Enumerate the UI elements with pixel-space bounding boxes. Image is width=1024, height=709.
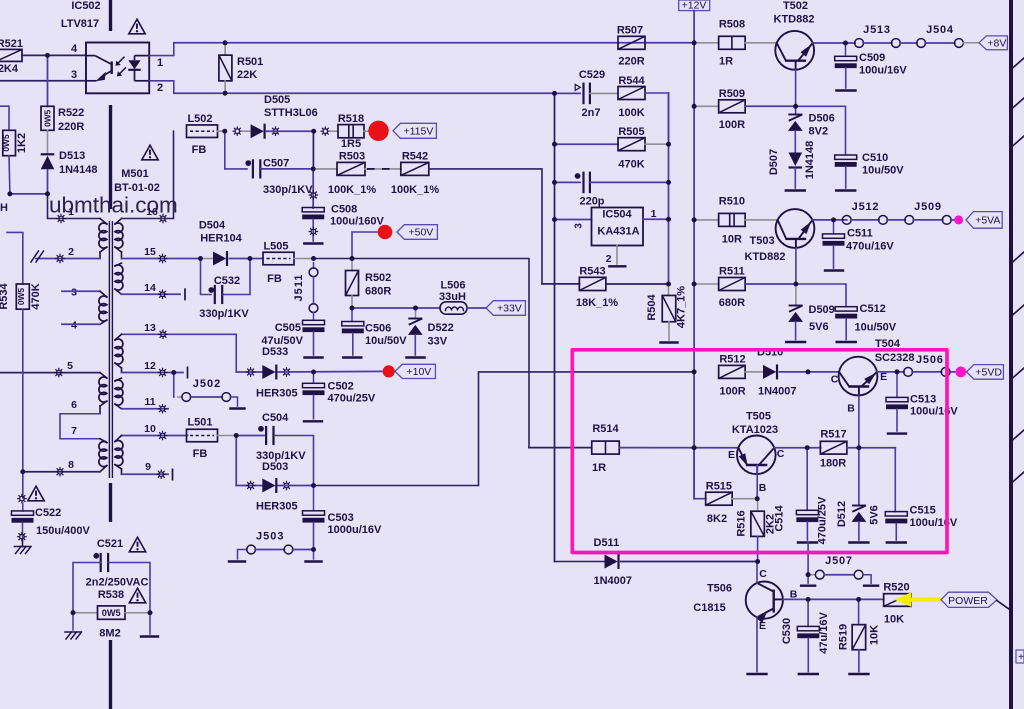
opto LED (135, 55, 150, 57)
wire D503 out to riser (278, 485, 313, 487)
svg-text:10u/50V: 10u/50V (855, 322, 897, 334)
wire D513 to node (47, 170, 49, 194)
right error column (668, 93, 670, 284)
svg-text:C: C (777, 448, 785, 460)
diode D505 (242, 130, 251, 132)
svg-text:T502: T502 (783, 0, 808, 12)
capacitor C502 (313, 372, 315, 383)
wire riser to D533 (236, 371, 262, 373)
wire R522 to D513 (47, 130, 49, 154)
T502 base down (795, 70, 797, 107)
svg-text:R515: R515 (706, 481, 732, 493)
+12V rail (693, 11, 695, 499)
shunt regulator IC504 KA431A (555, 219, 592, 221)
wire error column to D511 (555, 561, 605, 563)
svg-text:T503: T503 (750, 235, 775, 247)
svg-text:POWER: POWER (948, 595, 988, 607)
svg-text:1N4148: 1N4148 (804, 141, 816, 180)
svg-text:HER305: HER305 (256, 501, 298, 513)
svg-text:FB: FB (267, 273, 282, 285)
test point mark (233, 126, 243, 136)
svg-text:R520: R520 (883, 582, 909, 594)
wire pin10 to L501 (122, 435, 188, 437)
snubber C532 loop (201, 259, 212, 295)
resistor R510 (694, 219, 718, 221)
svg-text:KTD882: KTD882 (774, 14, 815, 26)
svg-text:1R: 1R (719, 56, 733, 68)
svg-text:J509: J509 (914, 201, 942, 213)
svg-text:2: 2 (606, 253, 612, 265)
test mark pin13 riser (246, 367, 256, 377)
svg-text:1R: 1R (592, 462, 606, 474)
svg-text:2n2/250VAC: 2n2/250VAC (86, 577, 149, 589)
diode D504 (201, 258, 214, 260)
svg-text:D507: D507 (768, 149, 780, 175)
svg-text:B: B (847, 403, 855, 415)
wire R544 to right column (645, 93, 669, 144)
svg-text:0W5: 0W5 (16, 288, 26, 306)
svg-text:IC504: IC504 (602, 209, 632, 221)
chassis ground under C522 (22, 541, 24, 547)
svg-text:1N4148: 1N4148 (59, 164, 98, 176)
diode D533 (262, 365, 275, 379)
svg-text:C: C (831, 374, 839, 386)
svg-text:C513: C513 (910, 394, 936, 406)
test mark below C522 (22, 523, 24, 541)
wire D533 to +10V flag (278, 370, 382, 373)
svg-text:R507: R507 (617, 25, 643, 37)
diode D503 (262, 479, 275, 493)
jumper J502 (173, 373, 175, 398)
flag +50V (397, 225, 437, 240)
svg-text:L502: L502 (187, 113, 212, 125)
svg-text:100K_1%: 100K_1% (328, 184, 377, 196)
svg-text:330p/1KV: 330p/1KV (199, 308, 249, 320)
T504 emitter to +5VD (877, 371, 904, 373)
junction dots layer (45, 53, 50, 58)
bus diagonal stubs (1012, 58, 1024, 69)
ground under D522 (407, 356, 425, 358)
svg-text:14: 14 (144, 282, 156, 294)
svg-text:10: 10 (144, 423, 156, 435)
svg-text:4K7_1%: 4K7_1% (676, 286, 688, 328)
capacitor C504 (236, 435, 264, 437)
svg-text:J511: J511 (293, 274, 305, 302)
wire lower rail to error amp (174, 92, 555, 94)
svg-text:18K_1%: 18K_1% (576, 297, 618, 309)
flag +8V (979, 36, 1007, 50)
ground under C509 (837, 89, 856, 91)
wire riser to D503 (236, 485, 262, 487)
zener D506 (795, 106, 797, 114)
wire T505 collector to R517 (774, 447, 821, 449)
wire pin14 with end bar (122, 293, 181, 295)
wire between nodes (10, 193, 48, 195)
wire D505 anode to C507 (225, 131, 247, 169)
svg-text:C511: C511 (847, 228, 873, 240)
capacitor C521 (93, 553, 99, 559)
svg-text:100K_1%: 100K_1% (391, 184, 440, 196)
flag +5VA (966, 212, 1002, 229)
svg-text:2n7: 2n7 (582, 107, 601, 119)
svg-text:1: 1 (651, 208, 657, 220)
resistor R519 (858, 599, 860, 624)
svg-text:R512: R512 (719, 354, 745, 366)
magenta highlight box (572, 350, 947, 553)
capacitor C528 (555, 181, 581, 183)
flag +12V (679, 0, 710, 11)
capacitor C515 (894, 448, 896, 512)
svg-text:C512: C512 (860, 303, 886, 315)
svg-text:100u/16V: 100u/16V (859, 65, 907, 77)
resistor R517 (820, 441, 847, 454)
capacitor C522 (22, 503, 24, 511)
svg-text:C508: C508 (331, 204, 357, 216)
capacitor C510 (835, 155, 857, 159)
zener D522 (415, 308, 417, 319)
test point mark after D505 (271, 126, 281, 136)
transformer M501 core (108, 221, 110, 478)
svg-text:L501: L501 (187, 417, 212, 429)
svg-text:100u/16V: 100u/16V (910, 406, 958, 418)
svg-text:8: 8 (68, 459, 74, 471)
wire pin2 with break mark (36, 258, 100, 260)
svg-text:L505: L505 (263, 241, 288, 253)
capacitor C512 (835, 307, 857, 311)
ground under R519 (849, 673, 868, 675)
resistor R542 (401, 162, 429, 175)
svg-text:680R: 680R (719, 297, 745, 309)
right winding 13-12 (115, 334, 122, 340)
svg-text:100R: 100R (719, 386, 745, 398)
svg-text:+5VD: +5VD (975, 367, 1002, 379)
right winding 15-14 (122, 258, 201, 260)
ground under C503 node (313, 550, 315, 560)
svg-text:+33V: +33V (497, 303, 522, 315)
wire pin12 with end bar (122, 372, 184, 374)
svg-text:R503: R503 (339, 151, 365, 163)
svg-text:7: 7 (71, 425, 77, 437)
svg-text:+115V: +115V (403, 125, 433, 137)
svg-text:FB: FB (193, 448, 208, 460)
lead R518 to +115V dot (364, 130, 370, 132)
svg-text:M501: M501 (121, 168, 149, 180)
svg-text:10K: 10K (869, 625, 881, 645)
svg-text:470u/25V: 470u/25V (817, 496, 829, 544)
right winding 12-11 (115, 378, 122, 381)
svg-text:33V: 33V (428, 336, 448, 348)
svg-text:C502: C502 (328, 381, 354, 393)
svg-text:2: 2 (157, 82, 163, 94)
svg-text:C529: C529 (579, 69, 605, 81)
svg-text:D513: D513 (59, 150, 85, 162)
svg-text:R519: R519 (838, 624, 850, 650)
wire base node to C510 (796, 106, 846, 155)
diode D510 (745, 371, 763, 373)
wire rail to R514 column (314, 259, 530, 448)
svg-text:D512: D512 (836, 501, 848, 527)
svg-text:J513: J513 (863, 24, 891, 36)
svg-text:J506: J506 (916, 354, 944, 366)
resistor R538 (73, 612, 98, 614)
svg-text:150u/400V: 150u/400V (36, 525, 90, 537)
svg-text:J504: J504 (926, 24, 954, 36)
svg-text:HER305: HER305 (256, 388, 298, 400)
red dot +115V (368, 121, 388, 141)
svg-text:R544: R544 (618, 75, 645, 87)
ground under C508 (304, 242, 322, 244)
svg-text:1: 1 (157, 57, 163, 69)
svg-text:D522: D522 (428, 322, 454, 334)
svg-text:8K2: 8K2 (707, 513, 727, 525)
svg-text:C521: C521 (97, 538, 123, 550)
svg-text:4: 4 (71, 43, 78, 55)
svg-text:R504: R504 (646, 293, 658, 320)
svg-text:2K4: 2K4 (0, 63, 19, 75)
svg-text:LTV817: LTV817 (61, 18, 99, 30)
resistor R543 (542, 283, 580, 285)
svg-text:R517: R517 (820, 429, 846, 441)
svg-text:KTD882: KTD882 (745, 251, 786, 263)
svg-text:+5VA: +5VA (975, 215, 1000, 227)
C521 left loop (73, 563, 101, 613)
svg-text:D511: D511 (594, 537, 620, 549)
svg-text:C509: C509 (859, 52, 885, 64)
svg-text:D509: D509 (809, 304, 835, 316)
svg-text:1: 1 (68, 206, 74, 218)
svg-text:C505: C505 (275, 322, 301, 334)
svg-text:E: E (728, 449, 735, 461)
wire C507 to node (261, 168, 313, 170)
ground under D512 (849, 541, 868, 543)
svg-text:J512: J512 (852, 201, 880, 213)
capacitor C530 (807, 599, 809, 626)
svg-text:C522: C522 (35, 507, 61, 519)
svg-text:33uH: 33uH (439, 291, 466, 303)
svg-text:470K: 470K (30, 283, 42, 309)
capacitor C506 (351, 308, 353, 322)
chassis ground left of R538 (72, 613, 74, 630)
svg-text:J503: J503 (256, 531, 284, 543)
flag +33V (467, 307, 486, 309)
resistor R518 (338, 125, 364, 138)
svg-text:3: 3 (574, 223, 585, 229)
wire R514 to T505 emitter (619, 447, 738, 449)
ground under C512 (837, 341, 856, 343)
svg-text:R510: R510 (719, 196, 745, 208)
svg-text:470u/16V: 470u/16V (846, 241, 894, 253)
continuation slashes pin2 (31, 251, 39, 262)
svg-text:4: 4 (71, 320, 77, 332)
svg-text:1N4007: 1N4007 (758, 386, 797, 398)
wire pin13 to D533 riser (122, 334, 237, 372)
ground under C506 (343, 356, 361, 358)
svg-text:11: 11 (144, 396, 155, 408)
wire D511 to collector node (621, 561, 758, 563)
optocoupler U IC502 box (86, 43, 149, 94)
wire D503 node to pink box feed (314, 372, 695, 486)
right winding 10-9 (115, 436, 122, 442)
wire R521 node down to R522 (47, 55, 49, 106)
resistor R503 (337, 162, 365, 175)
jumper J511 (313, 263, 315, 269)
T505 base down (756, 465, 758, 499)
svg-text:10R: 10R (722, 234, 742, 246)
capacitor C511 (833, 220, 835, 234)
svg-text:D533: D533 (262, 346, 288, 358)
wire node to transformer pin1 (48, 194, 101, 219)
svg-text:47u/16V: 47u/16V (818, 612, 830, 654)
svg-text:KA431A: KA431A (597, 226, 639, 238)
svg-text:+50V: +50V (408, 227, 433, 239)
svg-text:C515: C515 (910, 505, 936, 517)
svg-text:C1815: C1815 (693, 602, 725, 614)
svg-text:680R: 680R (365, 286, 391, 298)
svg-text:470u/25V: 470u/25V (328, 393, 376, 405)
svg-text:R518: R518 (338, 113, 364, 125)
wire top rail to +12V node (174, 42, 694, 44)
svg-text:H: H (0, 202, 8, 214)
svg-text:5V6: 5V6 (869, 505, 881, 525)
wire base node to C512 (796, 284, 846, 307)
capacitor C507 (245, 160, 251, 166)
diode D513 (41, 153, 55, 155)
opto light arrows (117, 57, 124, 64)
capacitor C508 (302, 208, 324, 212)
T506 emitter to ground (756, 618, 758, 672)
resistor R505 (555, 143, 619, 145)
wire POWER flag to bus (997, 601, 1011, 611)
svg-text:8M2: 8M2 (99, 628, 120, 640)
svg-text:C504: C504 (262, 412, 289, 424)
zener D509 (795, 284, 797, 306)
svg-text:+8V: +8V (987, 37, 1006, 49)
svg-text:D503: D503 (262, 461, 288, 473)
test mark before D503 (246, 481, 256, 491)
svg-text:R534: R534 (0, 282, 10, 309)
svg-text:1000u/16V: 1000u/16V (328, 524, 382, 536)
svg-text:C510: C510 (862, 152, 888, 164)
wire D505 cathode node down to C507 node (312, 131, 314, 169)
flag +10V (395, 364, 435, 378)
ground stub under J507 dot (807, 575, 809, 584)
svg-text:+: + (1018, 652, 1024, 663)
warning triangle near C522 (28, 486, 44, 501)
svg-text:100R: 100R (719, 119, 745, 131)
ground under R504 (661, 341, 678, 343)
flag POWER (941, 592, 997, 607)
ground under C530 (799, 673, 818, 675)
svg-text:R521: R521 (0, 38, 23, 50)
svg-text:100K: 100K (618, 107, 644, 119)
svg-text:R501: R501 (237, 56, 263, 68)
svg-text:C514: C514 (774, 504, 786, 531)
svg-text:R542: R542 (402, 151, 428, 163)
svg-text:470K: 470K (618, 159, 644, 171)
capacitor C505 (303, 320, 325, 324)
T503 base down (795, 248, 797, 284)
svg-text:0W5: 0W5 (102, 608, 121, 618)
svg-text:3: 3 (71, 69, 77, 81)
svg-text:1N4007: 1N4007 (594, 575, 633, 587)
wire R517 to D512 node (847, 447, 895, 449)
T506 base wire (783, 598, 808, 600)
svg-text:+10V: +10V (406, 366, 431, 378)
resistor R508 (694, 42, 718, 44)
svg-text:16: 16 (146, 206, 158, 218)
svg-text:L506: L506 (440, 280, 465, 292)
ground under C505 (305, 356, 323, 358)
svg-text:8V2: 8V2 (809, 126, 829, 138)
C521 right loop (108, 563, 150, 613)
resistor R516 (757, 499, 759, 512)
node dots error column left (554, 93, 556, 561)
svg-text:R508: R508 (719, 19, 745, 31)
svg-text:J507: J507 (825, 555, 853, 567)
riser L501 net down to D503 (235, 436, 237, 486)
pink dot +5VA (954, 215, 963, 224)
svg-text:2: 2 (68, 246, 74, 258)
ferrite bead L502 (187, 125, 218, 138)
svg-text:T505: T505 (746, 411, 771, 423)
ferrite bead L505 (263, 252, 294, 265)
wire opto pin3 from left edge (0, 80, 86, 82)
svg-text:J502: J502 (193, 378, 221, 390)
wire R534 chain top (7, 232, 23, 284)
svg-text:C: C (759, 568, 767, 580)
svg-text:10u/50V: 10u/50V (862, 165, 904, 177)
resistor R520 (884, 594, 912, 607)
resistor R521 (0, 49, 22, 61)
resistor R509 (694, 105, 718, 107)
svg-text:22K: 22K (237, 69, 257, 81)
svg-text:T506: T506 (707, 583, 732, 595)
svg-text:STTH3L06: STTH3L06 (264, 107, 318, 119)
ground under C515 (887, 541, 906, 543)
svg-text:9: 9 (145, 461, 151, 473)
svg-text:13: 13 (144, 322, 156, 334)
svg-text:R502: R502 (365, 272, 391, 284)
resistor R522 (41, 106, 54, 130)
svg-text:FB: FB (192, 144, 207, 156)
winding 5-6 (0, 372, 100, 374)
ground under C511 (825, 269, 843, 271)
winding 7-8 (100, 439, 107, 443)
capacitor C529 (575, 84, 580, 90)
T503 emitter row (812, 219, 846, 221)
resistor R507 (618, 36, 645, 49)
resistor R502 (351, 259, 353, 271)
svg-text:1K2: 1K2 (16, 133, 28, 153)
svg-text:C532: C532 (214, 275, 240, 287)
svg-text:1R5: 1R5 (341, 138, 361, 150)
red dot +50V (352, 232, 377, 259)
ground under D509 (786, 341, 805, 343)
ferrite bead L501 (187, 429, 218, 442)
resistor 1K2 0W5 chain (0, 106, 9, 130)
svg-text:220p: 220p (579, 196, 604, 208)
svg-text:R538: R538 (98, 589, 124, 601)
capacitor C509 (845, 43, 847, 56)
svg-text:C507: C507 (263, 158, 289, 170)
test mark above C522 (17, 494, 27, 504)
svg-text:HER104: HER104 (200, 233, 242, 245)
wire D510 to T504 (780, 371, 840, 373)
T502 emitter to +8V (813, 42, 846, 44)
svg-text:D505: D505 (264, 94, 290, 106)
T504 base down to R517 node (858, 396, 860, 448)
zener D512 (858, 448, 860, 506)
